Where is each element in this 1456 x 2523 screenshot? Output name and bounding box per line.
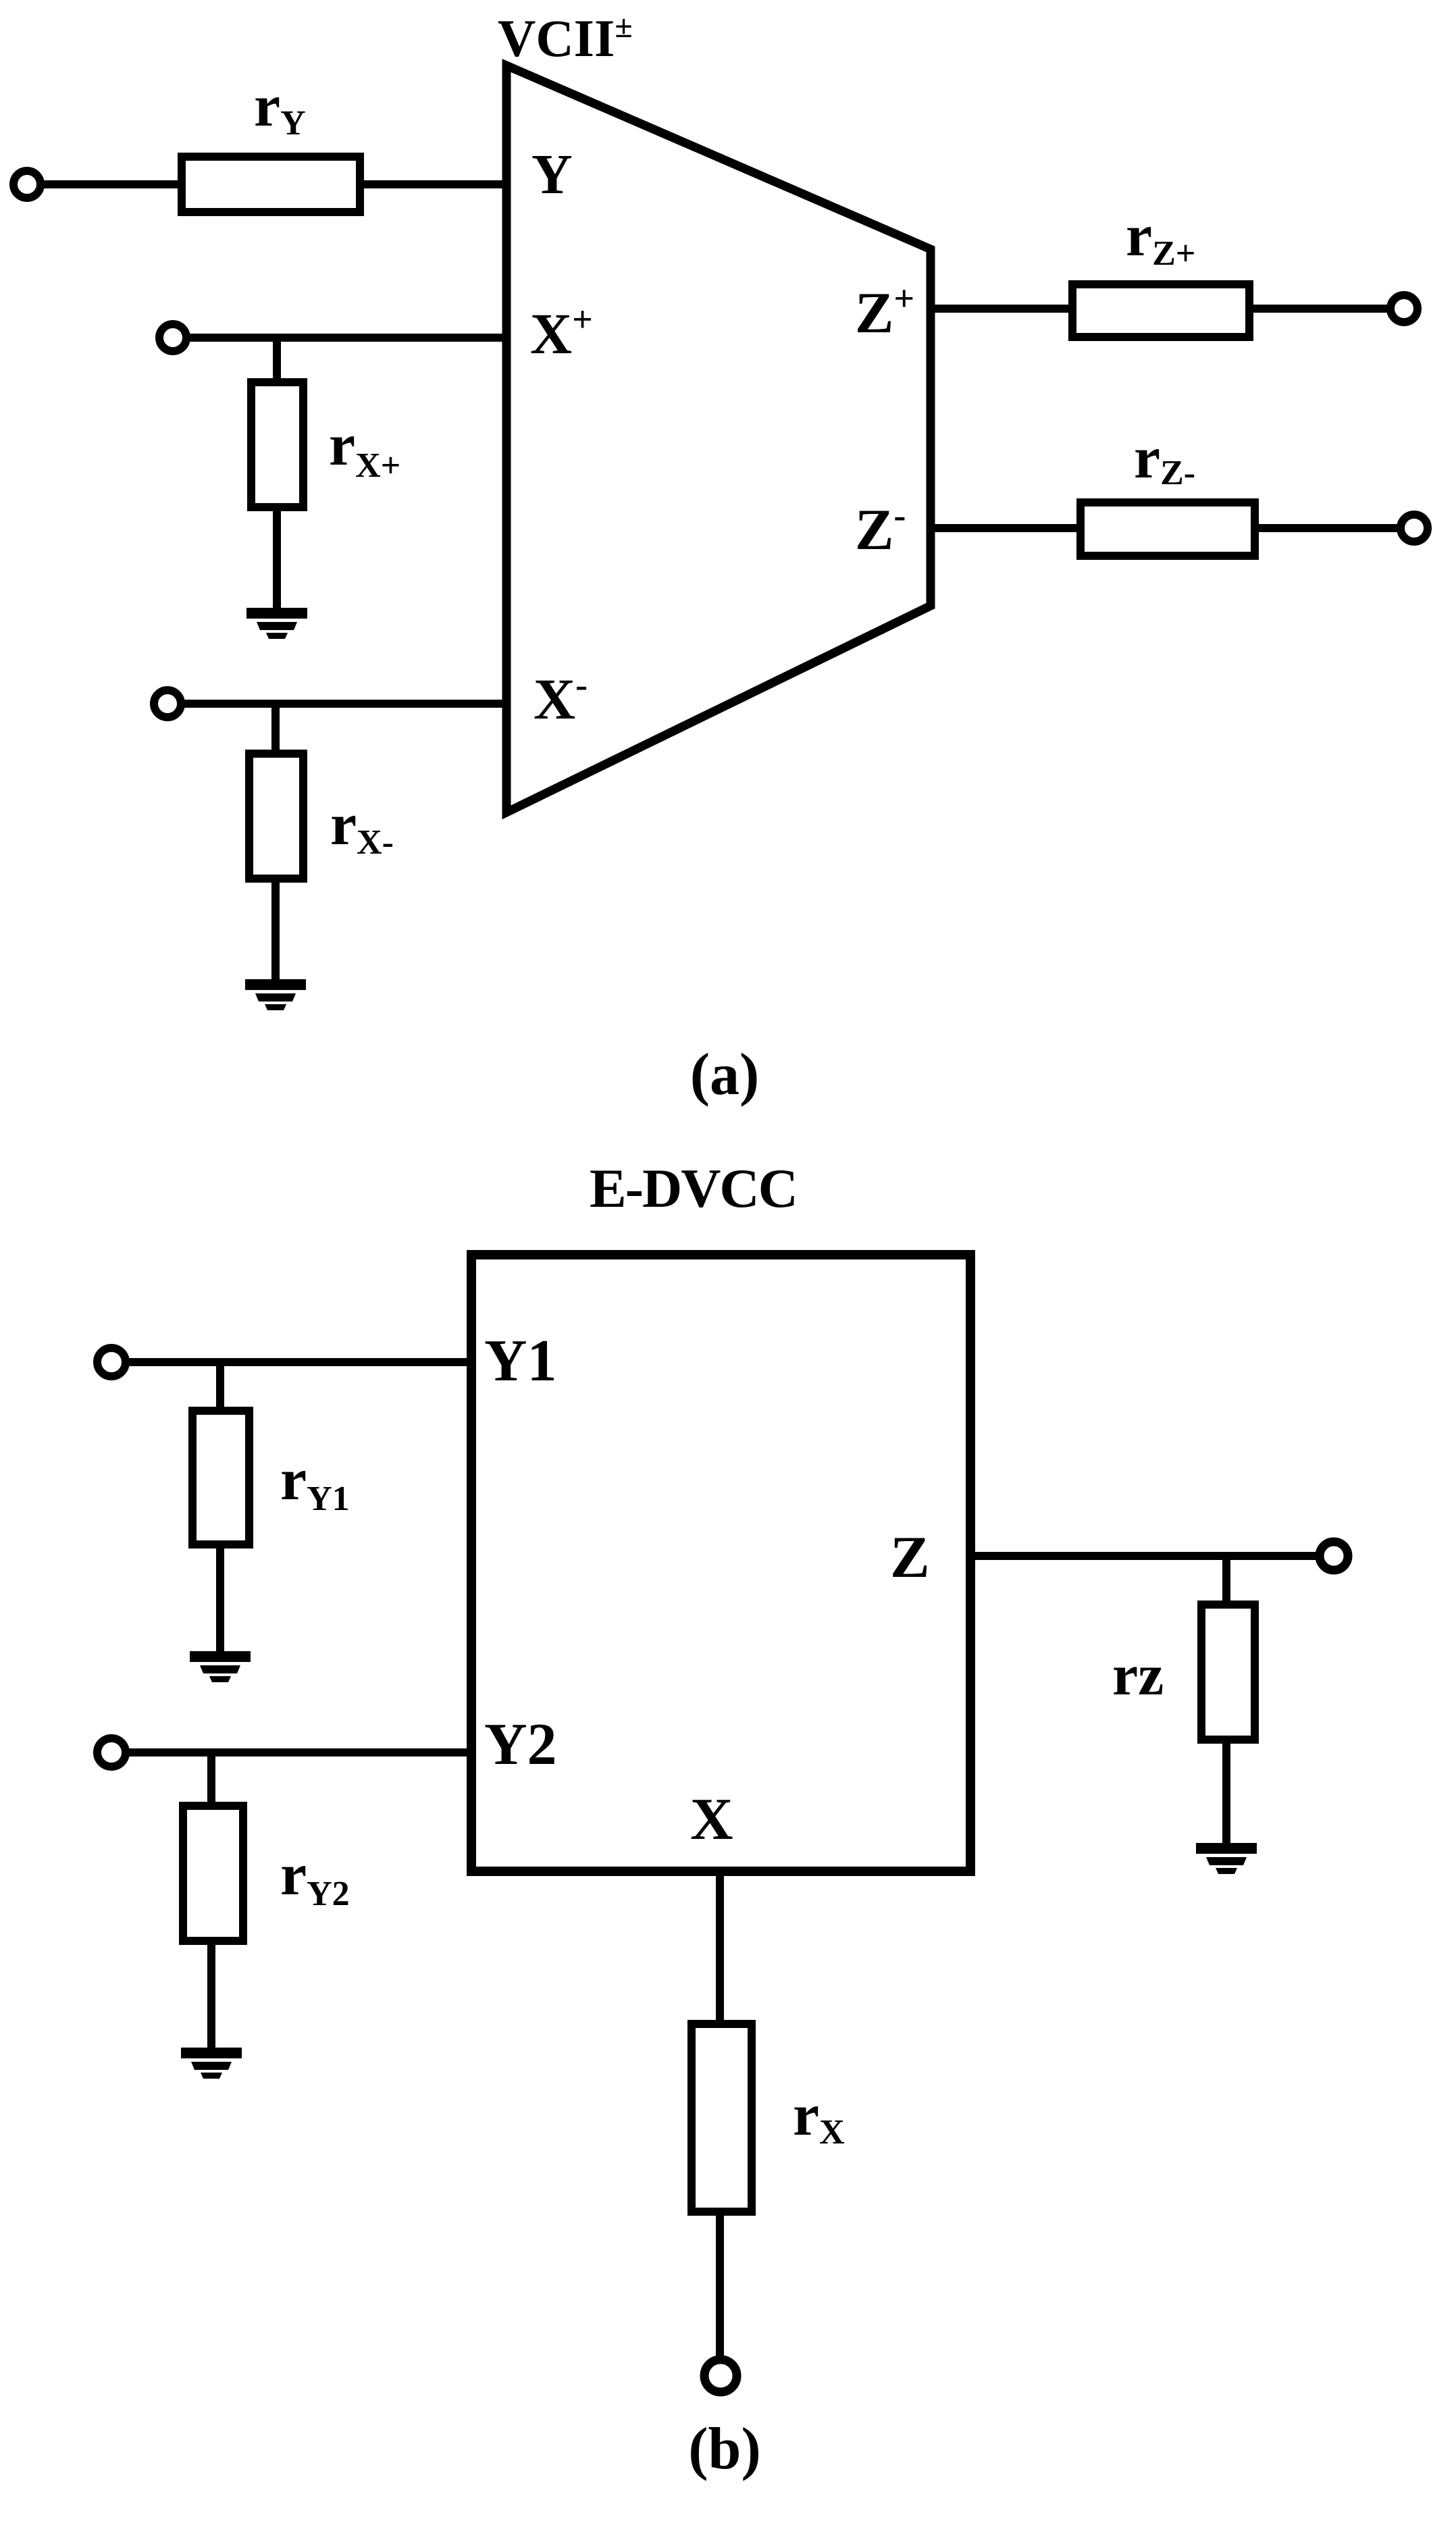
svg-text:VCII±: VCII± [498, 9, 633, 68]
svg-text:Y1: Y1 [484, 1328, 557, 1394]
svg-text:(a): (a) [690, 1042, 760, 1108]
svg-text:rz: rz [1112, 1642, 1164, 1707]
svg-text:(b): (b) [688, 2416, 761, 2482]
svg-text:Y: Y [531, 143, 573, 206]
svg-text:X: X [690, 1787, 733, 1852]
svg-text:Z: Z [890, 1525, 930, 1590]
svg-text:Y2: Y2 [484, 1712, 557, 1777]
svg-text:E-DVCC: E-DVCC [590, 1158, 797, 1219]
